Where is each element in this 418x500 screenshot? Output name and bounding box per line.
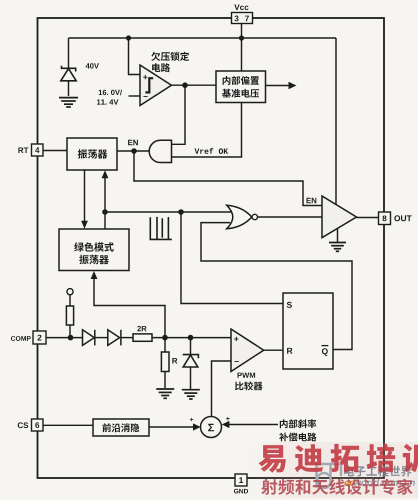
wire summer to PWM - input [212, 361, 232, 416]
node zener clamp [188, 335, 194, 341]
arrow bias reference output [266, 85, 292, 87]
wire PWM output to R input [264, 349, 283, 351]
block internal bias reference 内部偏置基准电压 [216, 71, 266, 103]
node rail Vcc drop [239, 35, 244, 40]
arrow slope compensation into summer [228, 424, 278, 426]
node COMP junction [68, 335, 74, 341]
label UVLO thresholds [99, 90, 122, 96]
wire node to zener Z2 [190, 338, 192, 355]
diode D1 [83, 330, 95, 346]
block green mode oscillator 绿色模式振荡器 [59, 229, 129, 271]
resistor pull-up [66, 306, 73, 325]
wire zener Z1 to ground [68, 81, 70, 96]
label slope compensation 内部斜率 补偿电路 [280, 419, 316, 428]
node UVLO output [182, 82, 188, 88]
wire NOR output to buffer [258, 216, 323, 218]
resistor R [161, 352, 169, 372]
label 2R [137, 326, 146, 331]
resistor 2R [133, 334, 152, 341]
wire circle to pull-up resistor [69, 295, 71, 306]
wire buffer ground stub [337, 228, 339, 242]
wire oscillator to AND gate [117, 150, 150, 152]
wire Vcc pin drop to bias box [241, 24, 243, 72]
node rail UVLO tap [126, 35, 131, 40]
label Vref OK [195, 148, 229, 154]
watermark 电子工程世界 [344, 466, 411, 477]
wire UVLO - input stub [129, 95, 141, 97]
wire clock rail to NOR gate [105, 211, 231, 213]
label GND [234, 489, 248, 494]
wire rail to zener Z1 [68, 38, 70, 68]
arrow green-mode to oscillator (up) [104, 176, 106, 229]
label Qbar [322, 348, 328, 356]
wire CS to LEB block [43, 424, 93, 426]
terminal circle pull-up [67, 289, 73, 295]
wire 2R to PWM + input [152, 337, 231, 339]
wire rail to UVLO + input [129, 38, 141, 75]
wire Vcc top rail [69, 37, 337, 39]
pin COMP 2 [33, 331, 46, 344]
watermark red title 易迪拓培训 [258, 444, 418, 473]
wire buffer to OUT pin [357, 217, 379, 219]
wire node to resistor R [164, 338, 166, 352]
node clock to S [178, 209, 184, 215]
wire Vref OK to AND gate [172, 103, 242, 158]
label EN buffer [307, 198, 317, 203]
wire UVLO output to bias box [172, 84, 217, 86]
watermark eeworld url [344, 481, 354, 486]
wire RT to oscillator [43, 150, 67, 152]
wire R to ground [164, 372, 166, 389]
wire Vcc rail down to output buffer [335, 38, 337, 205]
pin CS 6 [32, 419, 44, 431]
wire D1 to D2 [95, 337, 108, 339]
pin OUT 8 [379, 212, 391, 225]
wire clock down to SR latch S input [181, 212, 283, 304]
NOR gate U5 [227, 205, 258, 229]
wire COMP to diodes [46, 337, 83, 339]
label CS [18, 422, 29, 428]
zener Z1 40V [61, 66, 76, 81]
watermark logo square d [317, 464, 342, 488]
label + right [226, 417, 230, 421]
ground below Z1 [59, 98, 78, 107]
wire Qbar feedback to NOR input [201, 223, 352, 350]
wire UVLO output down to AND gate [172, 85, 186, 144]
wire EN node to buffer EN input [134, 151, 322, 206]
label UVLO circuit 欠压锁定 电路 [151, 52, 189, 61]
wire Z2 to ground [190, 367, 192, 389]
IC boundary frame [38, 18, 385, 478]
zener Z2 [183, 355, 199, 367]
label EN oscillator [128, 140, 138, 145]
pulse waveform symbol [150, 217, 172, 240]
block SR latch [283, 293, 333, 369]
label PWM 比较器 [238, 373, 256, 378]
arrow oscillator to green-mode (down) [84, 170, 86, 222]
label Vcc [234, 4, 248, 10]
node EN [131, 148, 137, 154]
pin RT 4 [32, 144, 44, 156]
label OUT [394, 215, 411, 221]
wire green-mode feed [94, 277, 165, 338]
label 40V [86, 63, 99, 68]
pin GND 1 [235, 474, 247, 486]
wire D2 to 2R [121, 337, 133, 339]
block leading edge blanking 前沿消隐 [93, 419, 149, 436]
label COMP [11, 336, 31, 341]
watermark red subtitle 射频和天线设计专家 [261, 479, 412, 495]
ground below Z2 [182, 390, 200, 399]
node R divider [162, 335, 168, 341]
ground below buffer [329, 243, 346, 252]
diode D2 [108, 330, 121, 346]
block oscillator 振荡器 [67, 138, 117, 170]
label + left [190, 418, 194, 422]
buffer U2 output driver [322, 196, 357, 238]
ground below R [156, 389, 174, 398]
op-amp U1 UVLO comparator [140, 65, 172, 106]
op-amp U3 PWM comparator [231, 329, 264, 372]
AND gate U4 (mirrored) [149, 140, 171, 162]
label RT [18, 148, 28, 154]
arrow LEB to summer [149, 426, 194, 428]
wire pull-up resistor to COMP node [69, 325, 71, 338]
label R [172, 358, 177, 364]
pin Vcc 3,7 [232, 13, 253, 24]
summer sigma [201, 417, 222, 438]
node clock tap [102, 209, 108, 215]
